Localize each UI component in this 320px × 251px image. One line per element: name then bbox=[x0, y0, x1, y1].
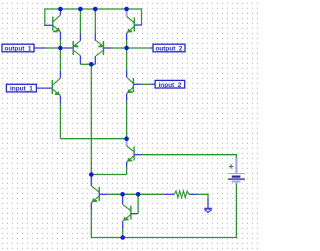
wire Q4 base stub bbox=[104, 47, 112, 49]
node dot H T7 base bbox=[136, 192, 141, 197]
label input_1 bbox=[6, 84, 36, 92]
wire Q3 collector lead bbox=[79, 56, 81, 65]
wire Q2 collector lead bbox=[126, 8, 128, 16]
wire Q5 emitter lead bbox=[59, 96, 61, 103]
node dot rail-Q3 bbox=[78, 7, 83, 12]
wire node B to output_2 bbox=[127, 47, 150, 49]
wire resistor right lead bbox=[189, 193, 198, 195]
transistor Q3 (PNP left of pair, base-left) bbox=[73, 41, 80, 56]
wire battery top lead bbox=[235, 158, 237, 174]
node dot rail-Q2 bbox=[124, 7, 129, 12]
battery B1 bbox=[228, 174, 245, 182]
wire top supply rail bbox=[45, 8, 142, 10]
label output_2 bbox=[153, 44, 185, 52]
transistor Q5 input_1 (NPN, base-left) bbox=[52, 78, 60, 95]
wire Q5 emitter down to row D bbox=[59, 103, 61, 139]
wire T7 collector lead from node G bbox=[122, 194, 124, 204]
wire rail to Q3 emitter bbox=[79, 9, 81, 34]
transistor T5 (NPN, base-right) bbox=[127, 146, 135, 162]
node dot tail bbox=[89, 62, 94, 67]
node dot G T7 collector bbox=[120, 192, 125, 197]
ground symbol bbox=[204, 209, 212, 213]
wire T6 base row to resistor bbox=[107, 193, 164, 195]
wire node C down to T5 collector bbox=[126, 139, 128, 147]
wire Q1 emitter to node A bbox=[59, 40, 61, 48]
wire Q2 emitter to node B bbox=[126, 40, 128, 48]
wire battery bottom lead bbox=[235, 182, 237, 184]
wire T5 emitter lead bbox=[126, 162, 128, 167]
wire node A down to Q5 collector bbox=[59, 48, 61, 71]
wire Q1 base stub bbox=[44, 24, 53, 26]
node dot B output_2 bbox=[124, 46, 129, 51]
wire Q1 collector lead bbox=[59, 9, 61, 15]
wire T5 base to battery plus bbox=[142, 154, 236, 156]
wire right riser to battery bbox=[235, 184, 237, 238]
wire right rail drop to Q2 base bbox=[141, 8, 143, 25]
wire T6 base stub bbox=[99, 193, 107, 195]
wire Q2 base stub bbox=[134, 24, 142, 26]
resistor R1 bbox=[174, 191, 189, 198]
label input_2 bbox=[155, 80, 185, 88]
svg-text:output_2: output_2 bbox=[156, 46, 183, 53]
wire rail to Q4 emitter bbox=[94, 9, 96, 34]
wire Q6 emitter down to node C bbox=[126, 94, 128, 101]
label output_1 bbox=[2, 44, 34, 52]
node dot bottom rail bbox=[120, 235, 125, 240]
wire bottom rail bbox=[91, 237, 236, 239]
wire output_1 to node A bbox=[46, 47, 61, 49]
wire Q2 emitter lead bbox=[126, 33, 128, 40]
wire row E horizontal (T5 emitter to node F) bbox=[91, 174, 126, 176]
wire node B down to Q6 collector bbox=[126, 48, 128, 71]
svg-text:input_1: input_1 bbox=[10, 86, 33, 93]
node dot C row D bbox=[124, 136, 129, 141]
transistor Q4 (PNP right of pair, base-right) bbox=[96, 41, 103, 56]
node dot rail-Q1 bbox=[58, 7, 63, 12]
wire Q6 base stub bbox=[133, 83, 141, 85]
svg-text:output_1: output_1 bbox=[5, 46, 32, 53]
battery plus sign bbox=[229, 164, 233, 168]
wire node F down to T6 collector bbox=[90, 175, 92, 187]
wire T5 base stub bbox=[134, 154, 142, 156]
wire ground lead bbox=[207, 198, 209, 208]
wire Q6 base to input_2 bbox=[142, 83, 151, 85]
wire resistor to ground corner bbox=[198, 193, 209, 195]
wire tail down bbox=[90, 64, 92, 174]
wire node A to Q3 base bbox=[60, 47, 64, 49]
transistor T7 (diode-connected NPN, base-right) bbox=[123, 204, 131, 221]
wire left rail drop to Q1 base bbox=[44, 8, 46, 25]
node dot rail-Q4 bbox=[93, 7, 98, 12]
node dot A output_1 bbox=[58, 46, 63, 51]
wire input_1 lead bbox=[36, 87, 52, 89]
wire tail bar of differential pair bbox=[80, 63, 95, 65]
wire output_1 lead bbox=[34, 47, 46, 49]
transistor Q2 (diode-connected NPN, base-right) bbox=[127, 16, 135, 33]
svg-text:input_2: input_2 bbox=[159, 82, 182, 89]
wire T7 base loop up to node H bbox=[137, 194, 139, 213]
transistor Q6 input_2 (NPN, base-right) bbox=[127, 77, 134, 94]
transistor T6 (NPN, base-right) bbox=[91, 186, 99, 203]
wire Q4 base to node B bbox=[112, 47, 127, 49]
wire T6 emitter down to bottom rail bbox=[90, 203, 92, 210]
wire Q1 emitter lead bbox=[59, 32, 61, 40]
wire T7 base stub bbox=[131, 213, 138, 215]
wire Q4 collector lead bbox=[94, 56, 96, 65]
wire row D horizontal bbox=[60, 138, 126, 140]
transistor Q1 (diode-connected NPN, base-left) bbox=[53, 15, 61, 32]
node dot F row E bbox=[89, 172, 94, 177]
wire T7 emitter down to bottom rail bbox=[122, 221, 124, 229]
